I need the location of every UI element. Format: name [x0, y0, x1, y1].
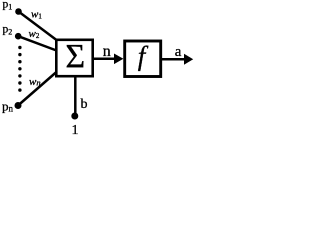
- wire p1 to summer: [19, 12, 57, 41]
- wire pn to summer: [18, 72, 57, 106]
- svg-text:a: a: [175, 44, 182, 60]
- net n wire: [93, 58, 115, 61]
- bias input dot: [71, 113, 78, 120]
- node p1 terminal dot: [15, 8, 22, 15]
- svg-text:n: n: [103, 43, 111, 60]
- bias wire b: [74, 77, 77, 113]
- svg-text:p1: p1: [3, 0, 13, 11]
- wire p2 to summer: [18, 36, 56, 50]
- node p2 terminal dot: [15, 33, 22, 40]
- svg-text:Σ: Σ: [65, 38, 85, 75]
- ellipsis dots column: [18, 46, 21, 92]
- node pn terminal dot: [15, 102, 22, 109]
- net n arrowhead: [114, 54, 123, 65]
- transfer function box f: [125, 41, 161, 77]
- output arrowhead: [184, 54, 193, 65]
- summer box U1: [56, 40, 92, 76]
- svg-text:b: b: [81, 97, 88, 112]
- svg-text:1: 1: [72, 123, 79, 135]
- output wire a: [162, 58, 185, 61]
